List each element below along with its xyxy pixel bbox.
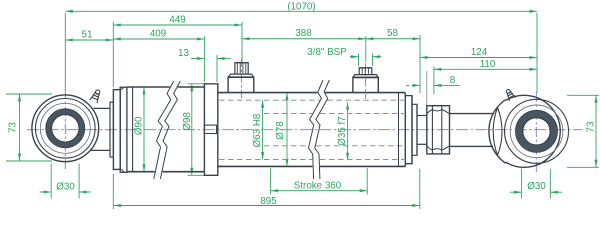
dimension diameter 90 rear tube, x=144 from y=90.2 to y=169.7 [134, 87, 146, 172]
dimension 58 from x=365.8 to x=420 at y=38.75 [366, 28, 420, 41]
left eye bearing ring (dark annulus) [49, 112, 81, 144]
head face plate [405, 96, 412, 164]
right port boss chamfer [353, 75, 378, 78]
svg-text:51: 51 [82, 29, 93, 40]
rear tube bottom wall y=171.7 [127, 171, 204, 173]
bore dia 63 hidden line top y=100.8 [219, 99, 404, 101]
extension line y=167.3 right eye bottom [567, 166, 599, 168]
dimension diameter 30 right eye bore at y=192.2 [510, 181, 562, 194]
extension line left eye center x=65.3 (top) [64, 13, 66, 90]
extension line x=113.3 rear face [112, 22, 114, 87]
head weld line x=398.5 [398, 93, 400, 167]
extension line x=367.2 stroke end [366, 168, 368, 195]
left rod-end eye outer housing circle [32, 95, 99, 162]
right eye bearing ring (dark annulus) [519, 114, 553, 148]
dimension Stroke 360 from x=270.6 to x=367.2 at y=190.7 [271, 181, 368, 193]
dimension 73 right eye height, x=594.3 from y=94.8 to y=168 [586, 95, 598, 167]
svg-text:58: 58 [387, 28, 398, 39]
dimension diameter 35 f7 rod, x=347.6 from y=102.1 to y=160.2 [337, 102, 349, 160]
left eye spacer ring [110, 102, 113, 157]
ring center pin hole [204, 125, 216, 133]
svg-text:73: 73 [8, 122, 19, 133]
rear cap disk [113, 90, 120, 170]
extension line x=217 ring right edge [216, 55, 218, 82]
extension line y=95.3 right eye top [567, 94, 599, 96]
rod dia 35 hidden line top y=114.5 [264, 113, 404, 115]
right eye boss outer arc [489, 100, 506, 164]
left rod-end eye inner rim circle [36, 99, 96, 159]
lock nut hex edges [432, 106, 441, 154]
svg-text:Ø98: Ø98 [182, 111, 193, 130]
svg-text:388: 388 [295, 28, 312, 39]
dimension 449 from x=113.3 to x=242 at y=25 [113, 14, 242, 26]
right rod-end eye inner rim circle [505, 99, 569, 163]
svg-text:Ø30: Ø30 [527, 181, 546, 192]
svg-text:73: 73 [586, 121, 597, 132]
extension line y=161 left eye bottom [6, 160, 52, 162]
dimension 51 from x=65.3 to x=113.3 at y=40 [65, 29, 113, 41]
dimension 388 port centers from x=242 to x=365.8 at y=38.75 [242, 28, 366, 40]
extension line y=83.8 ring top [188, 83, 205, 85]
svg-text:Ø78: Ø78 [275, 121, 286, 140]
svg-text:3/8" BSP: 3/8" BSP [307, 47, 347, 58]
main horizontal centerline y=129.6 [27, 129, 582, 131]
rear cap weld collar [120, 87, 127, 172]
right port boss body [353, 77, 378, 92]
extension line x=372.5 port thread right [372, 54, 374, 67]
extension line x=419.8 bottom [419, 169, 421, 209]
dimension 124 from x=420 to x=537 at y=57.5 [420, 47, 537, 59]
extension line x=550.3 right bore [549, 169, 551, 199]
svg-text:409: 409 [150, 28, 166, 39]
extension line y=94 left eye top [6, 93, 52, 95]
rear tube weld line x=132.6 [132, 87, 134, 172]
tube end face x=405.3 [404, 93, 406, 167]
nut face reference line x=426.8 extended [426, 71, 428, 106]
break line 1 right zigzag [160, 81, 180, 179]
dimension diameter 30 left eye bore at y=192 [40, 182, 92, 194]
svg-text:Ø63 H8: Ø63 H8 [252, 113, 263, 147]
break line 2 right zigzag [315, 80, 330, 179]
dimension diameter 78 front tube, x=287 from y=92.6 to y=167.4 [275, 93, 289, 167]
rod dia 35 hidden line bottom y=146 [264, 145, 404, 147]
dimension 110 from x=433.9 to x=537 at y=68.8 [434, 59, 537, 71]
svg-text:(1070): (1070) [287, 1, 315, 12]
dimension 895 from x=113.3 to x=419.8 at y=205.5 [113, 196, 420, 207]
bore dia 63 hidden line bottom y=159.8 [219, 159, 404, 161]
lock nut body [427, 106, 450, 154]
left eye neck top line [94, 107, 111, 109]
svg-text:124: 124 [471, 47, 488, 58]
right port thread stub [359, 68, 372, 75]
lock nut chamfer arcs [427, 110, 450, 150]
right eye bearing seat circle [510, 105, 563, 158]
extension line x=521.6 right bore [521, 169, 523, 199]
ring dia 98 body [204, 84, 217, 176]
left eye bearing outer edge circle [46, 109, 85, 148]
right eye bore circle dia 30 [523, 118, 550, 145]
dimension 13 ring width, outside arrows at x=204.4 and x=216.5, y=58.5 [178, 48, 230, 60]
dimension diameter 98 ring, x=191.8 from y=86.5 to y=173.3 [182, 84, 193, 176]
left eye vertical centerline x=65.3 [64, 89, 66, 171]
svg-text:13: 13 [178, 48, 189, 59]
break line 1 left zigzag [154, 81, 174, 179]
extension line x=242 left port center [241, 22, 243, 62]
right rod-end eye outer housing arc (open toward boss) [506, 95, 561, 167]
piston rod [450, 114, 494, 147]
extension line x=51.2 left bore [50, 164, 52, 199]
left port boss chamfer [228, 74, 254, 77]
svg-text:8: 8 [450, 75, 456, 86]
extension line right eye center x=537 (top) [536, 13, 538, 93]
break line 2 left zigzag [309, 80, 324, 179]
left port thread stub [235, 63, 248, 74]
left port vertical centerline x=241.4 [240, 59, 242, 99]
left eye bore circle dia 30 [52, 115, 80, 143]
svg-text:Stroke 360: Stroke 360 [294, 181, 342, 192]
extension line x=204.4 ring left edge [203, 36, 205, 82]
extension line x=358.5 port thread left [358, 54, 360, 67]
svg-text:Ø30: Ø30 [56, 182, 75, 193]
svg-text:110: 110 [480, 59, 496, 70]
left eye neck bottom line [91, 149, 111, 151]
right eye grease nipple [504, 88, 516, 101]
extension line x=365.8 right port center [365, 36, 367, 62]
rear tube top wall y=87 [127, 86, 204, 88]
dimension 8 exposed thread, outside arrows at x=420 and x=433.9, y=85.4 [406, 75, 460, 87]
extension line y=175.3 ring bottom [188, 174, 205, 176]
dimension (1070) overall length, line y=11.3 from x=65.3 to x=537 [65, 1, 537, 13]
extension line x=270.6 piston face [270, 168, 272, 195]
extension line x=79.1 left bore [78, 164, 80, 199]
rod thread stub [417, 116, 427, 145]
gland ring [412, 104, 417, 155]
dimension 73 left eye height, x=19.5 from y=93.4 to y=159.5 [8, 94, 21, 161]
right port vertical centerline x=365.6 [365, 63, 367, 99]
svg-text:895: 895 [260, 196, 277, 207]
extension line x=420 rod shoulder [419, 35, 421, 93]
main tube top wall y=92.6 [218, 92, 405, 94]
left eye grease nipple [90, 89, 102, 104]
left port boss body [228, 77, 254, 92]
right eye boss inner arc pair [493, 108, 502, 156]
right eye bearing outer edge circle [516, 110, 558, 152]
main tube bottom wall y=167.4 [218, 165, 405, 167]
svg-text:Ø90: Ø90 [134, 116, 145, 135]
extension line x=433.9 nut reference [433, 67, 435, 95]
dimension diameter 63 H8 bore, x=262.6 from y=100.8 to y=159.8 [252, 100, 264, 159]
label 3/8&#34; BSP with port thread dimension at y=56.7 [307, 47, 381, 58]
right eye vertical centerline x=536.3 [535, 92, 537, 175]
svg-text:Ø35 f7: Ø35 f7 [337, 116, 348, 145]
dimension 409 from x=113.3 to x=204.4 at y=39 [113, 28, 204, 40]
left eye bearing seat circle [40, 103, 90, 153]
svg-text:449: 449 [169, 14, 185, 25]
extension line x=113.3 bottom [112, 174, 114, 209]
